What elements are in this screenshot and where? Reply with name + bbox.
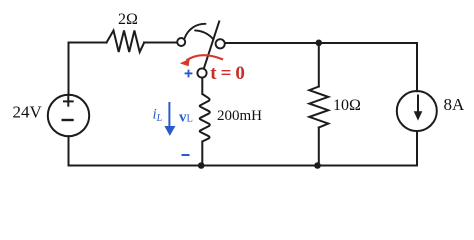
svg-text:vL: vL — [179, 109, 193, 125]
svg-text:10Ω: 10Ω — [333, 97, 361, 114]
svg-text:24V: 24V — [13, 103, 43, 122]
svg-text:8A: 8A — [444, 95, 466, 114]
svg-text:t = 0: t = 0 — [210, 63, 244, 84]
svg-text:200mH: 200mH — [217, 108, 262, 124]
svg-text:iL: iL — [153, 107, 163, 125]
svg-text:2Ω: 2Ω — [118, 11, 138, 28]
